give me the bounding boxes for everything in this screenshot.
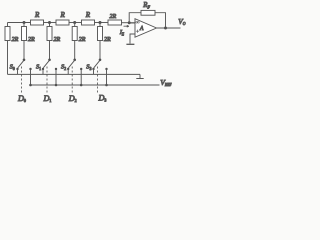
feedback resistor RF bbox=[129, 10, 165, 28]
switch S3 bbox=[92, 59, 107, 86]
junction dots Vref bus bbox=[29, 84, 108, 87]
resistor 2R bit2 bbox=[72, 23, 77, 60]
svg-text:2R: 2R bbox=[28, 37, 35, 43]
control dashed line D1 bbox=[46, 67, 48, 94]
ground bus wire bbox=[8, 73, 141, 75]
control dashed line D2 bbox=[71, 67, 73, 94]
svg-text:2R: 2R bbox=[79, 37, 86, 43]
resistor 2R terminator bbox=[5, 23, 10, 75]
svg-text:2R: 2R bbox=[12, 37, 19, 43]
output wire bbox=[157, 27, 181, 29]
node N3 bbox=[99, 21, 102, 24]
svg-text:2R: 2R bbox=[110, 14, 117, 20]
resistor 2R bit0 bbox=[22, 23, 27, 60]
node N2 bbox=[73, 21, 76, 24]
switch S0 bbox=[16, 59, 31, 86]
node N0 bbox=[23, 21, 26, 24]
label plus bbox=[136, 30, 139, 33]
current arrow I bbox=[124, 25, 130, 27]
node output bbox=[164, 27, 167, 30]
op-amp A bbox=[129, 19, 156, 44]
node N1 bbox=[48, 21, 51, 24]
resistor R segment1 bbox=[31, 20, 57, 25]
control dashed line D0 bbox=[21, 67, 23, 94]
resistor 2R series bbox=[108, 20, 135, 25]
ground symbol bus end bbox=[136, 74, 143, 78]
svg-text:R: R bbox=[85, 11, 91, 19]
switch S2 bbox=[67, 59, 82, 86]
label infinity bbox=[136, 21, 139, 23]
control dashed line D3 bbox=[97, 67, 99, 94]
resistor R segment3 bbox=[82, 20, 109, 25]
node summing junction bbox=[128, 21, 131, 24]
ground symbol op-amp bbox=[126, 43, 134, 45]
svg-text:R: R bbox=[60, 11, 66, 19]
resistor 2R bit1 bbox=[47, 23, 52, 60]
svg-text:A: A bbox=[139, 26, 144, 32]
resistor R segment2 bbox=[56, 20, 82, 25]
svg-text:2R: 2R bbox=[54, 37, 61, 43]
svg-text:2R: 2R bbox=[104, 37, 111, 43]
wire top rail left segment bbox=[8, 22, 31, 24]
svg-text:R: R bbox=[34, 11, 40, 19]
resistor 2R bit3 bbox=[98, 23, 103, 60]
switch S1 bbox=[42, 59, 57, 86]
Vref bus wire bbox=[31, 84, 160, 86]
